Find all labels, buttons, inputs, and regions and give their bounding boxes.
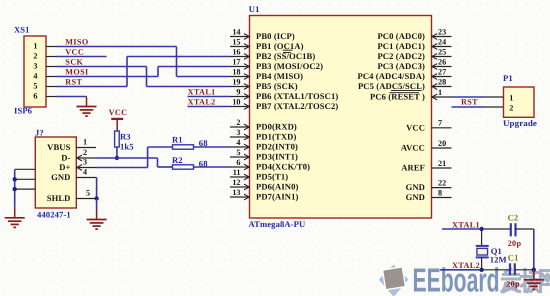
svg-text:U1: U1 bbox=[249, 4, 260, 14]
wire R2 to U1 PD4 bbox=[194, 166, 231, 168]
svg-text:23: 23 bbox=[438, 27, 446, 36]
wire RST to P1 pin 2 bbox=[452, 106, 484, 108]
svg-text:1: 1 bbox=[83, 138, 87, 147]
wire XTAL1 to U1 PB6 bbox=[188, 96, 231, 98]
svg-text:13: 13 bbox=[232, 188, 240, 197]
svg-text:PB3 (MOSI/OC2): PB3 (MOSI/OC2) bbox=[256, 61, 323, 71]
svg-text:XTAL2: XTAL2 bbox=[188, 97, 216, 106]
U1 pin 6 PD4 bbox=[230, 158, 310, 172]
svg-text:5: 5 bbox=[86, 189, 90, 198]
svg-text:PD0(RXD): PD0(RXD) bbox=[256, 122, 297, 132]
svg-text:20p: 20p bbox=[506, 280, 520, 289]
wire J.5 to ground bbox=[96, 199, 98, 210]
wire C2 to right rail bbox=[516, 228, 534, 230]
XS1 pin stubs bbox=[46, 47, 57, 97]
wire J mounting pins to ground bbox=[14, 169, 16, 208]
svg-text:PB1 (OC1A): PB1 (OC1A) bbox=[256, 41, 304, 51]
svg-text:ISP6: ISP6 bbox=[14, 105, 33, 115]
svg-text:PD2(INT0): PD2(INT0) bbox=[256, 142, 298, 152]
svg-text:2: 2 bbox=[33, 52, 37, 61]
J pin 2 D- stub bbox=[76, 148, 96, 161]
EEboard watermark logo diamond bbox=[379, 265, 409, 296]
svg-text:GND: GND bbox=[406, 192, 425, 202]
svg-text:PB4 (MISO): PB4 (MISO) bbox=[256, 71, 303, 81]
svg-text:AREF: AREF bbox=[401, 163, 425, 173]
PB2 SS overline bbox=[283, 52, 291, 54]
svg-text:J?: J? bbox=[35, 128, 44, 138]
ground left of J bbox=[5, 208, 25, 228]
U1 pin 2 PD0 bbox=[230, 118, 297, 132]
J pin 5 SHLD stub bbox=[76, 189, 96, 199]
U1 pin 26 PC3 bbox=[377, 57, 451, 71]
svg-text:PD7(AIN1): PD7(AIN1) bbox=[256, 192, 298, 202]
svg-text:MOSI: MOSI bbox=[65, 67, 88, 76]
svg-text:20: 20 bbox=[438, 139, 446, 148]
U1 pin 11 PD5 bbox=[230, 168, 288, 182]
svg-text:14: 14 bbox=[232, 27, 240, 36]
svg-text:PD3(INT1): PD3(INT1) bbox=[256, 152, 298, 162]
U1 pin 19 PB5 bbox=[230, 77, 298, 91]
svg-text:SHLD: SHLD bbox=[47, 193, 71, 203]
wire PC6 to P1 pin 1 bbox=[452, 96, 484, 98]
svg-text:RST: RST bbox=[461, 98, 478, 107]
svg-text:27: 27 bbox=[438, 67, 446, 76]
J pin 4 GND stub bbox=[76, 168, 96, 178]
svg-text:PB6 (XTAL1/TOSC1): PB6 (XTAL1/TOSC1) bbox=[256, 91, 338, 101]
svg-text:PD4(XCK/T0): PD4(XCK/T0) bbox=[256, 162, 310, 172]
wire C1 to right rail bbox=[515, 269, 534, 271]
U1 pin 7 VCC bbox=[406, 119, 451, 133]
J pin 1 VBUS stub bbox=[76, 138, 96, 148]
U1 pin 18 PB4 bbox=[230, 67, 303, 81]
svg-text:AVCC: AVCC bbox=[401, 143, 425, 153]
svg-text:1: 1 bbox=[438, 88, 442, 97]
wire XS1.6 to ground bbox=[57, 96, 87, 98]
svg-text:PB0 (ICP): PB0 (ICP) bbox=[256, 31, 295, 41]
svg-text:P1: P1 bbox=[503, 73, 513, 83]
U1 pin 13 PD7 bbox=[230, 188, 298, 202]
U1 pin 14 PB0 bbox=[230, 27, 295, 41]
svg-text:XTAL2: XTAL2 bbox=[452, 261, 480, 270]
wire J.4 GND down to J.5 SHLD bbox=[96, 178, 98, 199]
U1 pin 12 PD6 bbox=[230, 178, 298, 192]
U1 pin 28 PC5 bbox=[358, 77, 452, 91]
svg-text:24: 24 bbox=[438, 37, 446, 46]
svg-text:4: 4 bbox=[83, 168, 87, 177]
U1 pin 8 GND bbox=[406, 188, 452, 202]
svg-text:C1: C1 bbox=[508, 252, 519, 262]
IC U1 ATmega8A-PU bbox=[249, 4, 432, 229]
U1 pin 22 GND bbox=[406, 178, 452, 192]
wire SCK: XS1.3 to U1 PB5 bbox=[57, 67, 231, 87]
svg-text:VCC: VCC bbox=[65, 47, 84, 56]
U1 pin 9 PB6 bbox=[230, 87, 338, 101]
svg-text:6: 6 bbox=[236, 158, 240, 167]
wire XTAL1 net bbox=[442, 228, 482, 230]
svg-text:VBUS: VBUS bbox=[47, 142, 70, 152]
junction rail / C1 bbox=[532, 268, 536, 272]
svg-text:PC5 (ADC5/SCL): PC5 (ADC5/SCL) bbox=[358, 81, 425, 91]
U1 pin 5 PD3 bbox=[230, 148, 298, 162]
wire D+ : J.3 to R1 bbox=[96, 147, 173, 168]
svg-text:R1: R1 bbox=[172, 134, 183, 144]
svg-text:25: 25 bbox=[438, 47, 446, 56]
wire R3 to D- net bbox=[116, 147, 118, 158]
wire XTAL2 to U1 PB7 bbox=[188, 106, 231, 108]
junction XTAL1 / crystal bbox=[479, 227, 483, 231]
crystal Q1 12M bbox=[476, 229, 507, 270]
svg-text:3: 3 bbox=[236, 128, 240, 137]
svg-text:SCK: SCK bbox=[65, 57, 83, 66]
J mounting stubs left bbox=[15, 169, 35, 189]
resistor R3 bbox=[115, 131, 134, 152]
svg-text:16: 16 bbox=[232, 47, 240, 56]
svg-text:10: 10 bbox=[232, 97, 240, 106]
svg-text:2: 2 bbox=[509, 103, 513, 112]
svg-text:20p: 20p bbox=[508, 239, 522, 248]
svg-text:PD6(AIN0): PD6(AIN0) bbox=[256, 182, 298, 192]
junction at J.5 bbox=[94, 196, 98, 200]
power symbol VCC bbox=[109, 108, 128, 131]
svg-text:19: 19 bbox=[232, 77, 240, 86]
svg-text:ATmega8A-PU: ATmega8A-PU bbox=[249, 219, 306, 229]
svg-text:RST: RST bbox=[65, 77, 82, 86]
connector XS1 (ISP6) bbox=[14, 24, 46, 115]
svg-text:XS1: XS1 bbox=[14, 24, 30, 34]
ground under J.5 bbox=[87, 210, 107, 230]
svg-text:3: 3 bbox=[33, 62, 37, 71]
wire MOSI: XS1.4 to U1 PB3 bbox=[57, 67, 231, 77]
wire R1 to U1 PD2 bbox=[194, 146, 231, 148]
P1 pin 2 stub bbox=[484, 106, 504, 108]
svg-text:PB5 (SCK): PB5 (SCK) bbox=[256, 81, 298, 91]
svg-text:26: 26 bbox=[438, 57, 446, 66]
svg-text:GND: GND bbox=[406, 182, 425, 192]
U1 pin 16 PB2 bbox=[230, 47, 315, 61]
capacitor C2 20p bbox=[508, 212, 522, 248]
svg-text:12: 12 bbox=[232, 178, 240, 187]
svg-text:2: 2 bbox=[236, 118, 240, 127]
connector P1 Upgrade bbox=[503, 73, 537, 128]
svg-text:D-: D- bbox=[61, 153, 70, 163]
connector J? (USB 440247-1) bbox=[35, 128, 76, 220]
svg-text:VCC: VCC bbox=[406, 122, 425, 132]
svg-text:PD1(TXD): PD1(TXD) bbox=[256, 132, 296, 142]
watermark CJK characters (hand-drawn strokes) bbox=[502, 270, 550, 292]
svg-text:PC2 (ADC2): PC2 (ADC2) bbox=[377, 51, 425, 61]
svg-text:5: 5 bbox=[236, 148, 240, 157]
svg-text:D+: D+ bbox=[59, 162, 70, 172]
svg-text:1: 1 bbox=[33, 42, 37, 51]
PC5 ADC5/SCL underline bbox=[391, 90, 422, 92]
wire XTAL2 to C1 bbox=[482, 269, 510, 271]
svg-text:5: 5 bbox=[33, 82, 37, 91]
U1 pin 25 PC2 bbox=[377, 47, 451, 61]
svg-text:15: 15 bbox=[232, 37, 240, 46]
svg-text:28: 28 bbox=[438, 77, 446, 86]
wire XTAL2 net bbox=[440, 269, 482, 271]
svg-text:PC4 (ADC4/SDA): PC4 (ADC4/SDA) bbox=[357, 71, 425, 81]
U1 pin 1 PC6 bbox=[370, 88, 452, 102]
wire VCC from XS1.2 bbox=[57, 56, 107, 58]
svg-text:22: 22 bbox=[438, 178, 446, 187]
svg-text:4: 4 bbox=[236, 138, 240, 147]
resistor R1 bbox=[172, 134, 208, 149]
svg-text:17: 17 bbox=[232, 57, 240, 66]
U1 pin 21 AREF bbox=[401, 159, 451, 173]
svg-text:PB7 (XTAL2/TOSC2): PB7 (XTAL2/TOSC2) bbox=[256, 101, 338, 111]
junction mount pin 3 bbox=[13, 187, 17, 191]
U1 pin 4 PD2 bbox=[230, 138, 298, 152]
svg-text:9: 9 bbox=[236, 87, 240, 96]
svg-text:MISO: MISO bbox=[65, 37, 88, 46]
svg-text:11: 11 bbox=[233, 168, 241, 177]
svg-text:R3: R3 bbox=[120, 132, 131, 142]
svg-text:1k5: 1k5 bbox=[120, 142, 134, 152]
svg-text:GND: GND bbox=[51, 172, 70, 182]
svg-text:PC0 (ADC0): PC0 (ADC0) bbox=[377, 31, 425, 41]
J pin 3 D+ stub bbox=[76, 158, 96, 171]
junction R3 / D- bbox=[115, 156, 119, 160]
U1 pin 24 PC1 bbox=[377, 37, 451, 51]
wire RST: XS1.5 to U1 PB2 bbox=[57, 57, 231, 87]
svg-text:PC3 (ADC3): PC3 (ADC3) bbox=[377, 61, 425, 71]
resistor R2 bbox=[172, 155, 208, 169]
junction XTAL2 / crystal bbox=[479, 268, 483, 272]
svg-text:21: 21 bbox=[438, 159, 446, 168]
svg-text:PD5(T1): PD5(T1) bbox=[256, 172, 288, 182]
svg-text:12M: 12M bbox=[490, 254, 507, 264]
ground under XS1 pin 6 bbox=[77, 97, 97, 117]
svg-text:440247-1: 440247-1 bbox=[37, 210, 71, 220]
U1 pin 20 AVCC bbox=[401, 139, 452, 153]
svg-text:R2: R2 bbox=[172, 155, 183, 165]
svg-text:C2: C2 bbox=[508, 212, 519, 222]
svg-text:3: 3 bbox=[83, 158, 87, 167]
svg-text:4: 4 bbox=[33, 72, 37, 81]
PC6 RESET overline bbox=[390, 92, 420, 94]
U1 pin 27 PC4 bbox=[357, 67, 451, 81]
svg-text:18: 18 bbox=[232, 67, 240, 76]
svg-text:VCC: VCC bbox=[109, 108, 128, 117]
junction mount pin 2 bbox=[13, 177, 17, 181]
svg-text:2: 2 bbox=[83, 148, 87, 157]
svg-text:PC1 (ADC1): PC1 (ADC1) bbox=[377, 41, 425, 51]
wire XTAL1 to C2 bbox=[482, 228, 510, 230]
capacitor C1 20p bbox=[506, 252, 520, 288]
svg-text:8: 8 bbox=[438, 188, 442, 197]
PB1 OC1A underline bbox=[283, 49, 293, 51]
U1 pin 15 PB1 bbox=[230, 37, 304, 51]
U1 pin 17 PB3 bbox=[230, 57, 323, 71]
P1 pin 1 stub bbox=[484, 96, 504, 98]
U1 pin 3 PD1 bbox=[230, 128, 296, 142]
svg-text:XTAL1: XTAL1 bbox=[452, 220, 480, 229]
ground bottom right bbox=[524, 270, 544, 290]
U1 pin 23 PC0 bbox=[377, 27, 451, 41]
U1 pin 10 PB7 bbox=[230, 97, 338, 111]
svg-text:XTAL1: XTAL1 bbox=[188, 87, 216, 96]
svg-text:6: 6 bbox=[33, 92, 37, 101]
svg-text:1: 1 bbox=[509, 93, 513, 102]
svg-text:Upgrade: Upgrade bbox=[503, 118, 537, 128]
wire right rail to ground bbox=[533, 229, 535, 272]
wire MISO: XS1.1 to U1 PB4 bbox=[57, 47, 231, 77]
svg-text:7: 7 bbox=[438, 119, 442, 128]
wire D- : J.2 to R2 bbox=[96, 158, 173, 167]
